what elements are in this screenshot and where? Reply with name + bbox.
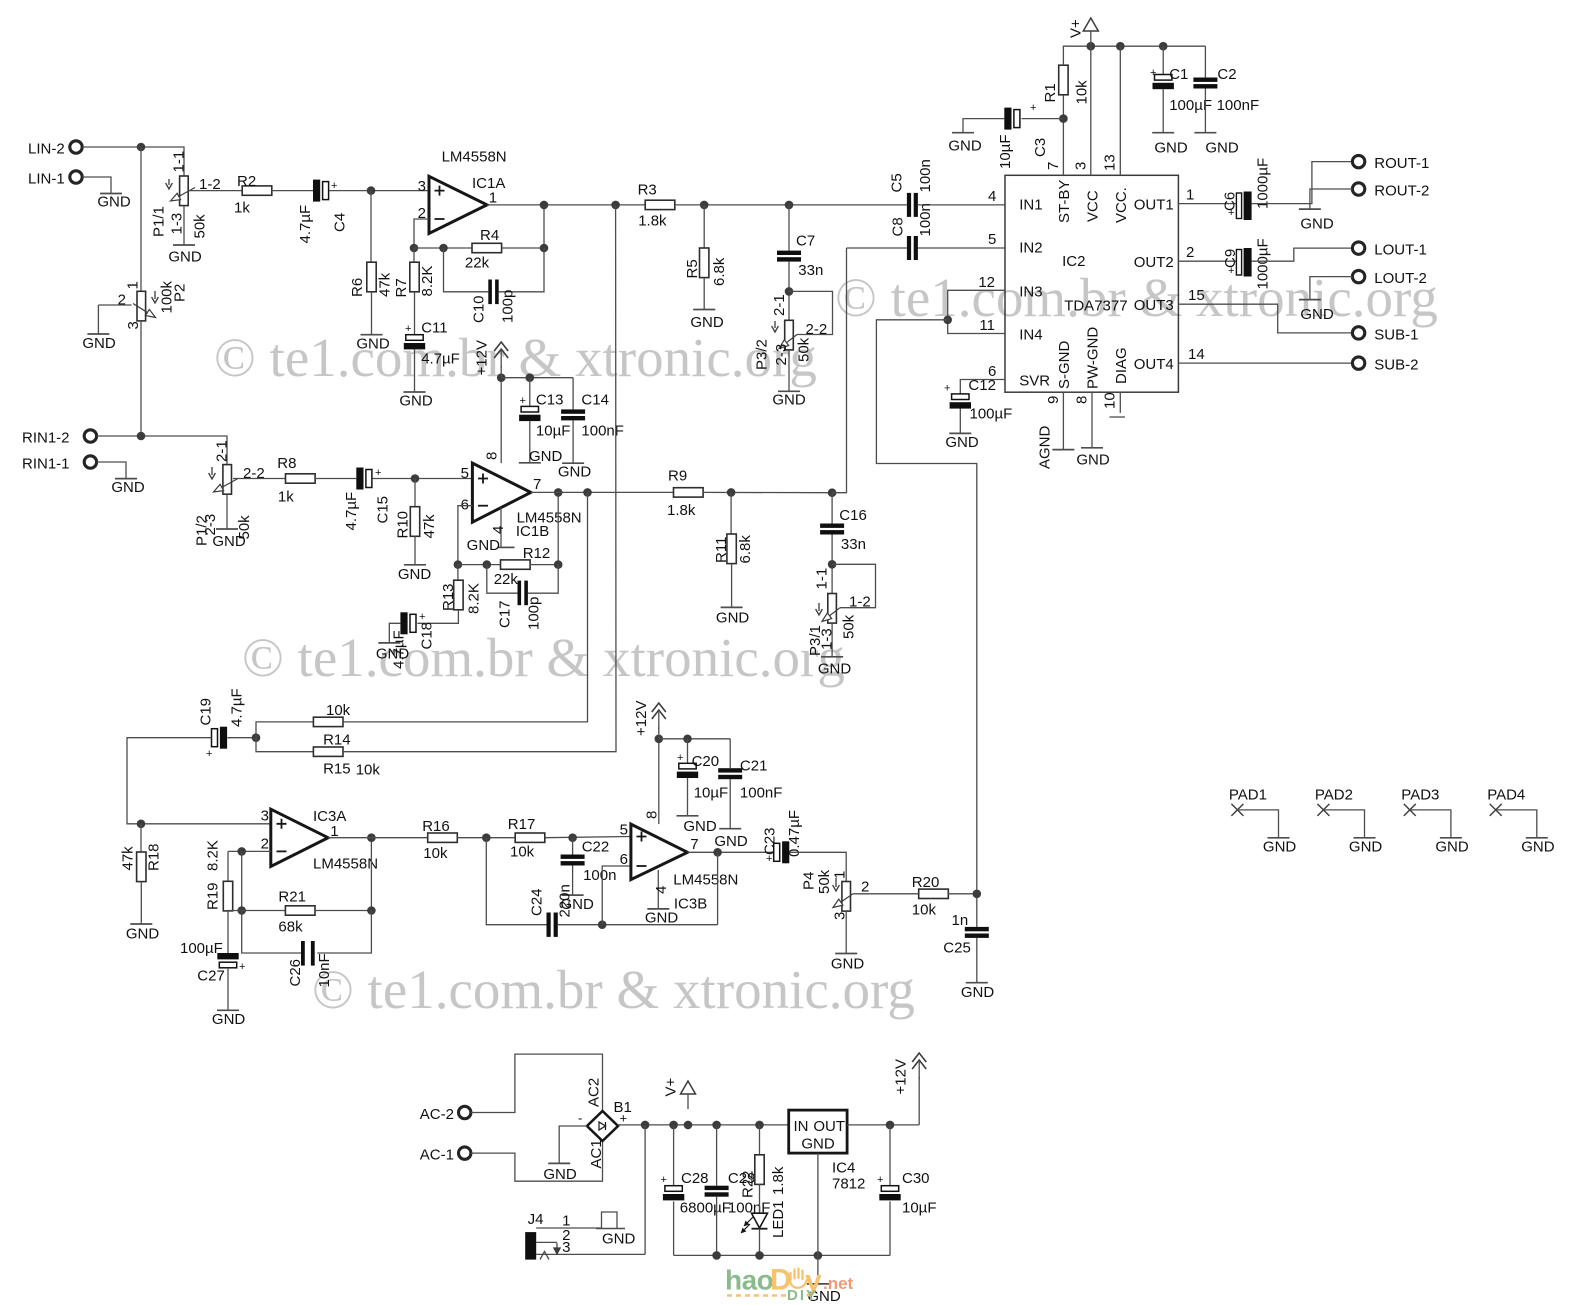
capacitor C2 100nF: [1204, 46, 1206, 77]
wire R21 to output riser: [315, 838, 371, 911]
resistor R13 8.2K: [457, 565, 459, 581]
svg-text:GND: GND: [801, 1136, 835, 1153]
svg-text:C5: C5: [889, 173, 906, 192]
svg-text:P3/2: P3/2: [754, 339, 771, 370]
wire R9 to C16 node: [703, 491, 832, 493]
svg-text:OUT4: OUT4: [1134, 356, 1174, 373]
svg-text:50k: 50k: [192, 214, 209, 239]
ground C25: [966, 982, 988, 984]
wire R12 line: [458, 564, 501, 566]
svg-text:ROUT-2: ROUT-2: [1374, 183, 1429, 200]
resistor R12 22k: [501, 560, 531, 569]
wire R18 to ground: [140, 882, 142, 924]
svg-text:2-2: 2-2: [243, 465, 265, 482]
wire R4 right to output riser: [502, 205, 544, 248]
svg-text:1k: 1k: [278, 489, 294, 506]
svg-text:10k: 10k: [912, 902, 937, 919]
ground P1/2: [216, 528, 238, 530]
ground P3/1: [821, 656, 843, 658]
resistor R16 10k: [428, 833, 458, 842]
svg-text:GND: GND: [529, 448, 563, 465]
capacitor C22 100n: [572, 838, 574, 855]
potentiometer P3/2 50k: [785, 320, 794, 350]
svg-text:1-3: 1-3: [819, 628, 836, 650]
node R20/C25: [973, 890, 982, 899]
svg-text:C30: C30: [902, 1170, 930, 1187]
node C15/R10: [411, 474, 420, 483]
capacitor C8 100n: [907, 236, 911, 260]
svg-text:+: +: [661, 1174, 667, 1186]
svg-text:R22: R22: [740, 1170, 757, 1198]
svg-text:© te1.com.br & xtronic.org: © te1.com.br & xtronic.org: [214, 327, 817, 388]
svg-text:C6: C6: [1222, 192, 1239, 211]
capacitor C17 100p: [518, 581, 522, 606]
wire C21 to ground: [729, 779, 731, 829]
svg-text:GND: GND: [831, 956, 865, 973]
svg-text:100µF: 100µF: [180, 940, 223, 957]
wire C2 to ground: [1204, 89, 1206, 133]
svg-text:2-3: 2-3: [773, 344, 790, 366]
ground B1 minus: [548, 1162, 570, 1164]
svg-text:10k: 10k: [423, 845, 448, 862]
ground C14: [562, 462, 584, 464]
potentiometer P3/1 50k: [828, 594, 837, 624]
svg-text:3: 3: [562, 1239, 570, 1256]
terminal LIN-2: [70, 141, 82, 153]
svg-text:GND: GND: [558, 464, 592, 481]
wire C8 to IC2 pin5: [918, 247, 1005, 249]
ground LOUT-2: [1299, 299, 1321, 301]
svg-text:100nF: 100nF: [1217, 97, 1260, 114]
svg-text:C14: C14: [581, 392, 609, 409]
resistor R21 68k: [285, 906, 315, 915]
wire R11 to ground: [731, 564, 733, 608]
svg-text:50k: 50k: [841, 614, 858, 639]
svg-text:V+: V+: [1068, 19, 1085, 38]
wire C12 to ground: [959, 409, 961, 434]
bridge rectifier B1: [587, 1111, 618, 1141]
wire OUT2 to C9: [1178, 260, 1236, 262]
svg-text:C20: C20: [692, 753, 720, 770]
svg-text:1: 1: [1186, 187, 1194, 204]
svg-text:22k: 22k: [465, 255, 490, 272]
ground ROUT-2: [1299, 208, 1321, 210]
svg-text:OUT2: OUT2: [1134, 254, 1174, 271]
wire +12V rail to C20 C21: [659, 738, 730, 740]
ground IC3B pin4: [647, 908, 669, 910]
wire C9 to LOUT-1: [1252, 248, 1353, 261]
svg-text:10: 10: [1102, 392, 1119, 409]
node IC3B out: [713, 848, 722, 857]
wire R13 to C18: [417, 610, 458, 624]
capacitor C28 6800uF: [673, 1125, 675, 1186]
svg-text:C9: C9: [1222, 249, 1239, 268]
svg-text:+: +: [1030, 102, 1036, 114]
svg-text:4.7µF: 4.7µF: [421, 351, 460, 368]
node C16/P3-1: [828, 560, 837, 569]
svg-text:GND: GND: [1300, 306, 1334, 323]
svg-text:13: 13: [1102, 154, 1119, 171]
wire RIN1-2 to P1/2: [97, 436, 227, 465]
ground R11: [721, 606, 743, 608]
svg-text:+: +: [405, 323, 411, 335]
wire LIN-2 node down to P2: [140, 147, 142, 291]
op-amp IC1B LM4558N: [472, 463, 530, 522]
svg-text:GND: GND: [467, 537, 501, 554]
node R17/C22: [568, 833, 577, 842]
svg-text:GND: GND: [945, 434, 979, 451]
resistor R14 10k: [313, 717, 343, 726]
svg-text:1k: 1k: [234, 200, 250, 217]
wire R5 to ground: [703, 278, 705, 310]
power V+ supply: [681, 1081, 696, 1094]
wire LIN-2 to P1/1: [83, 147, 185, 176]
svg-text:1000µF: 1000µF: [1255, 158, 1272, 209]
wire ST-BY riser: [1062, 95, 1064, 176]
ground P3/2: [778, 390, 800, 392]
capacitor C5 100n: [907, 193, 911, 217]
svg-text:P2: P2: [172, 284, 189, 302]
wire ground rail: [674, 1254, 890, 1256]
svg-text:2: 2: [118, 292, 126, 309]
resistor R3 1.8k: [645, 200, 675, 209]
capacitor C11 4.7uF: [406, 335, 423, 341]
wire C29 to rail: [716, 1197, 718, 1256]
svg-text:LM4558N: LM4558N: [442, 149, 507, 166]
terminal LOUT-1: [1352, 242, 1364, 254]
wire C15 to IC1B pin5: [372, 478, 472, 480]
svg-text:GND: GND: [1349, 839, 1383, 856]
svg-text:AC-2: AC-2: [420, 1106, 454, 1123]
svg-text:10k: 10k: [356, 762, 381, 779]
wire PAD2 to ground: [1323, 810, 1364, 838]
svg-text:1-3: 1-3: [169, 213, 186, 235]
capacitor C13 10uF: [529, 378, 531, 407]
svg-text:PAD3: PAD3: [1401, 787, 1439, 804]
svg-text:7: 7: [690, 836, 698, 853]
svg-text:4: 4: [653, 886, 670, 894]
wire node to R6: [370, 191, 372, 263]
ground PAD3: [1440, 837, 1462, 839]
ground R6: [361, 334, 383, 336]
svg-text:ROUT-1: ROUT-1: [1374, 155, 1429, 172]
resistor R11 6.8k: [730, 492, 732, 534]
wire R14 to IC1B output riser: [343, 492, 588, 722]
wire PAD1 to ground: [1237, 810, 1278, 838]
svg-text:50k: 50k: [796, 337, 813, 362]
wire bridge plus rail: [618, 1124, 789, 1126]
svg-text:GND: GND: [645, 910, 679, 927]
svg-text:1n: 1n: [952, 912, 969, 929]
ground LIN-1: [100, 193, 122, 195]
wire IC3B pin6: [602, 866, 631, 925]
svg-text:LIN-1: LIN-1: [28, 171, 65, 188]
connector J4: [525, 1232, 536, 1260]
svg-text:+: +: [944, 383, 950, 395]
wire C7 to P3/2: [788, 262, 790, 321]
pad PAD3: [1404, 804, 1416, 816]
potentiometer P1/1 50k: [180, 176, 189, 206]
svg-text:5: 5: [988, 231, 996, 248]
resistor R8 1k: [286, 474, 316, 483]
svg-text:R11: R11: [713, 537, 730, 563]
svg-text:47k: 47k: [120, 846, 137, 871]
wire IC4 out to +12V: [847, 1124, 919, 1126]
wire C19 right fork: [227, 737, 256, 739]
capacitor C16 33n: [831, 493, 833, 524]
LED LED1: [752, 1213, 768, 1228]
svg-text:VCC.: VCC.: [1113, 187, 1130, 223]
wire IC1A output line: [487, 204, 645, 206]
wire RIN1-1 to ground: [97, 462, 126, 479]
resistor R20 10k: [919, 889, 949, 898]
svg-text:10µF: 10µF: [997, 135, 1014, 170]
wire VCC riser pin3: [1090, 46, 1092, 175]
svg-text:J4: J4: [528, 1211, 544, 1228]
svg-text:8: 8: [644, 811, 661, 819]
svg-text:3: 3: [261, 808, 269, 825]
wire IC1B pin6 to fb node: [458, 506, 473, 565]
wire IC1B pin8 to +12V: [500, 378, 502, 463]
wire P3/1 loop: [832, 564, 875, 607]
svg-text:SVR: SVR: [1019, 373, 1050, 390]
capacitor C24 220n: [547, 913, 551, 937]
op-amp IC1A LM4558N: [429, 176, 487, 233]
svg-text:10µF: 10µF: [536, 423, 571, 440]
wire C24 branch: [486, 838, 546, 925]
svg-text:11: 11: [979, 317, 995, 334]
svg-text:+: +: [877, 1174, 883, 1186]
capacitor C10 100p: [488, 280, 492, 305]
wire LIN-1 to ground: [83, 177, 112, 194]
svg-text:1000µF: 1000µF: [1255, 238, 1272, 289]
wire R6 to ground: [371, 292, 373, 335]
svg-text:R13: R13: [440, 583, 457, 611]
wire PW-GND pin8 to ground: [1091, 392, 1093, 448]
svg-text:15: 15: [1188, 287, 1205, 304]
power +12V out: [912, 1053, 926, 1069]
svg-text:-: -: [578, 1111, 582, 1126]
ground C22: [562, 894, 584, 896]
svg-text:1-1: 1-1: [171, 151, 188, 173]
terminal ROUT-1: [1352, 155, 1364, 167]
wire P2 to RIN node: [140, 321, 142, 436]
node +12V rail IC3: [655, 735, 664, 744]
ground IC4: [807, 1283, 829, 1285]
svg-text:C13: C13: [536, 392, 564, 409]
wire fork to R14: [256, 722, 313, 738]
svg-text:GND: GND: [356, 336, 390, 353]
svg-text:100n: 100n: [917, 203, 934, 236]
svg-text:LOUT-2: LOUT-2: [1374, 270, 1427, 287]
pad PAD4: [1490, 804, 1502, 816]
power V+ top: [1083, 18, 1098, 31]
svg-text:100µF: 100µF: [970, 406, 1013, 423]
wire IC2 SVR to C12: [960, 380, 1005, 394]
svg-text:IN1: IN1: [1019, 197, 1042, 214]
svg-text:PAD2: PAD2: [1315, 787, 1353, 804]
svg-text:C25: C25: [943, 940, 971, 957]
svg-text:4.7µF: 4.7µF: [229, 688, 246, 727]
svg-text:SUB-2: SUB-2: [1374, 357, 1418, 374]
svg-text:IC2: IC2: [1062, 253, 1085, 270]
capacitor C7 33n: [788, 205, 790, 251]
svg-text:8: 8: [484, 452, 501, 460]
svg-text:R4: R4: [480, 227, 499, 244]
wire R7 to C11: [414, 292, 416, 335]
node RIN junction: [137, 432, 146, 441]
wire C27 to ground: [227, 969, 229, 1011]
svg-text:C21: C21: [740, 758, 768, 775]
wire R8 to C15: [315, 478, 356, 480]
svg-text:TDA7377: TDA7377: [1064, 298, 1127, 315]
svg-text:GND: GND: [111, 479, 145, 496]
svg-text:.net: .net: [823, 1274, 854, 1293]
svg-text:GND: GND: [714, 833, 748, 850]
pad PAD2: [1317, 804, 1329, 816]
svg-text:7: 7: [1045, 162, 1062, 170]
svg-text:GND: GND: [683, 818, 717, 835]
wire C25 to ground: [976, 938, 978, 983]
terminal LIN-1: [70, 171, 82, 183]
wire IC1A pin2 to feedback node: [414, 219, 429, 248]
wire ROUT-2 to ground: [1310, 189, 1353, 209]
svg-text:14: 14: [1188, 346, 1205, 363]
svg-text:10µF: 10µF: [902, 1200, 937, 1217]
wire IC1B pin4 to ground: [500, 508, 502, 548]
capacitor C1 100uF: [1162, 46, 1164, 74]
ground PAD2: [1354, 837, 1376, 839]
svg-text:DIY: DIY: [787, 1287, 818, 1304]
terminal AC-1: [459, 1147, 471, 1159]
resistor R2 1k: [242, 186, 272, 195]
wire C22 to ground: [572, 866, 574, 896]
capacitor C30 10uF: [889, 1125, 891, 1186]
wire PAD3 to ground: [1410, 810, 1451, 838]
svg-text:C11: C11: [421, 320, 447, 337]
ground R18: [130, 923, 152, 925]
svg-text:C10: C10: [471, 295, 488, 323]
svg-text:IN: IN: [794, 1118, 809, 1135]
svg-text:+: +: [620, 1111, 628, 1126]
svg-text:50k: 50k: [816, 869, 833, 894]
potentiometer P1/2 50k: [223, 465, 232, 495]
node R16/C24: [482, 833, 491, 842]
ground C11: [404, 391, 426, 393]
svg-text:IN2: IN2: [1019, 240, 1042, 257]
wire C8 riser: [832, 248, 846, 493]
wire R15 to IC1A output riser: [343, 205, 616, 752]
svg-text:1: 1: [125, 281, 142, 289]
wire IC3B pin4 to ground: [657, 870, 659, 909]
wire LED1 to rail: [759, 1229, 761, 1256]
svg-text:LOUT-1: LOUT-1: [1374, 242, 1427, 259]
wire +12V rail to C13 C14: [501, 377, 573, 379]
svg-text:5: 5: [620, 822, 628, 839]
svg-text:C16: C16: [839, 507, 867, 524]
svg-text:GND: GND: [961, 984, 995, 1001]
svg-text:4.7µF: 4.7µF: [343, 492, 360, 531]
capacitor C6 1000uF: [1236, 193, 1241, 219]
svg-text:100nF: 100nF: [740, 785, 783, 802]
svg-text:IC3B: IC3B: [674, 896, 707, 913]
ground C21: [719, 828, 741, 830]
wire R21 line: [228, 910, 285, 912]
svg-text:22k: 22k: [494, 571, 519, 588]
svg-text:1.8k: 1.8k: [667, 502, 696, 519]
wire J4 riser: [644, 1125, 646, 1255]
capacitor C12 100uF: [952, 394, 969, 400]
svg-text:3: 3: [125, 321, 142, 329]
power +12V IC3: [652, 703, 666, 719]
svg-text:10k: 10k: [326, 702, 351, 719]
wire C18 to ground: [389, 623, 400, 643]
svg-text:GND: GND: [168, 249, 202, 266]
resistor R9 1.8k: [674, 488, 704, 497]
svg-text:3: 3: [1073, 162, 1090, 170]
svg-text:1-1: 1-1: [814, 568, 831, 590]
svg-text:C2: C2: [1217, 66, 1236, 83]
svg-text:1-2: 1-2: [849, 594, 871, 611]
capacitor C14 100nF: [572, 378, 574, 410]
ground P1/1: [173, 244, 195, 246]
svg-text:47k: 47k: [421, 514, 438, 539]
capacitor C15 4.7uF: [356, 468, 363, 490]
wire C14 to ground: [572, 420, 574, 463]
wire R16 to R17: [457, 837, 515, 839]
svg-text:GND: GND: [212, 533, 246, 550]
svg-text:1.8k: 1.8k: [638, 213, 667, 230]
wire P4 to ground: [845, 911, 847, 953]
svg-text:220n: 220n: [557, 884, 574, 917]
capacitor C4 4.7uF: [313, 180, 320, 202]
svg-text:+12V: +12V: [474, 340, 491, 375]
wire IC3B pin8 to +12V rail: [658, 739, 660, 824]
svg-text:+: +: [419, 611, 425, 623]
wire OUT1 to C6: [1178, 203, 1236, 205]
terminal SUB-2: [1352, 357, 1364, 369]
wire C3 left to ground: [963, 119, 1004, 133]
wire C16 to P3/1: [831, 535, 833, 594]
terminal AC-2: [459, 1106, 471, 1118]
svg-text:8.2K: 8.2K: [466, 583, 483, 614]
wire S-GND pin9 to AGND: [1062, 392, 1064, 449]
svg-text:OUT1: OUT1: [1134, 197, 1174, 214]
svg-text:8.2K: 8.2K: [205, 840, 222, 871]
ground C12: [949, 432, 971, 434]
svg-text:6.8k: 6.8k: [711, 257, 728, 286]
ground P2: [87, 333, 109, 335]
wire C26 loop: [242, 911, 301, 954]
svg-text:R10: R10: [395, 511, 412, 539]
svg-text:100n: 100n: [583, 867, 616, 884]
svg-text:LIN-2: LIN-2: [28, 141, 65, 158]
IC IC4 7812: [789, 1110, 847, 1153]
svg-text:C28: C28: [681, 1170, 709, 1187]
svg-text:4: 4: [490, 526, 507, 534]
svg-text:R12: R12: [523, 545, 551, 562]
svg-text:6.8k: 6.8k: [737, 535, 754, 564]
svg-text:LM4558N: LM4558N: [313, 856, 378, 873]
capacitor C20 10uF: [687, 739, 689, 764]
svg-text:6: 6: [461, 497, 469, 514]
svg-text:C19: C19: [198, 698, 215, 726]
svg-text:C7: C7: [796, 233, 815, 250]
svg-text:4: 4: [988, 188, 996, 205]
svg-text:AGND: AGND: [1037, 425, 1054, 469]
svg-text:LED1: LED1: [770, 1200, 787, 1238]
op-amp IC3A LM4558N: [271, 809, 328, 866]
